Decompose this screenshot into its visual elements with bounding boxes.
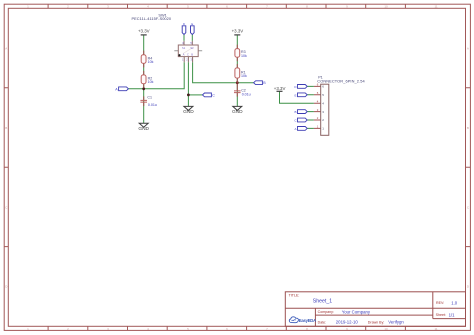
svg-text:GND: GND [232,109,243,115]
svg-text:10k: 10k [241,54,247,58]
svg-text:B: B [294,110,296,114]
svg-text:A: A [294,127,296,131]
svg-text:11: 11 [434,5,437,9]
bottom ticks [48,326,405,330]
wire: net B from encoder right pin [193,62,254,82]
svg-text:S1: S1 [182,46,186,50]
svg-text:D: D [183,22,185,26]
svg-text:1.0: 1.0 [451,300,458,305]
svg-text:TITLE:: TITLE: [289,294,300,298]
capacitor C1 [140,95,157,106]
svg-text:CONNECTOR_6PIN_2.54: CONNECTOR_6PIN_2.54 [317,79,365,84]
svg-text:C: C [212,93,215,97]
svg-text:+3.3V: +3.3V [138,28,150,33]
capacitor C2 [234,84,251,97]
svg-text:10k: 10k [148,80,154,84]
net flag C (middle) [203,93,216,97]
svg-text:B: B [191,53,193,57]
svg-text:E: E [294,93,296,97]
svg-text:B: B [5,126,7,130]
net flag B (connector pin 3) [294,110,307,114]
junction node A [142,87,145,90]
svg-text:0.01u: 0.01u [148,103,157,107]
pin 5 lead [191,41,193,45]
wire: +3.3V to connector pin 4 [280,92,314,104]
svg-text:2019-12-10: 2019-12-10 [336,320,359,325]
top ticks [48,4,405,8]
net flag A (connector pin 1) [294,127,307,131]
net flag E (above encoder pin 5, vertical) [191,22,195,41]
svg-text:A: A [467,47,469,51]
net flag C (connector pin 2) [294,118,307,122]
resistor R1 [235,64,247,83]
resistor R2 [141,71,153,88]
pin 4 lead [183,41,185,45]
net flag B (right) [254,81,267,85]
net flag A (left) [115,87,128,91]
svg-text:C: C [187,53,189,57]
svg-text:C1: C1 [147,95,152,99]
svg-text:11: 11 [434,327,437,331]
svg-text:Drawn By:: Drawn By: [368,321,385,325]
svg-text:Verifygn: Verifygn [388,320,404,325]
net flag D (above encoder pin 4, vertical) [182,22,186,41]
wire: connector flag stubs [307,86,314,128]
svg-text:B: B [467,126,469,130]
svg-text:10k: 10k [241,74,247,78]
svg-text:Your Company: Your Company [342,309,371,314]
wire: encoder middle pin down to gnd [187,62,189,106]
wire: left vertical column [143,35,145,123]
svg-text:10k: 10k [148,60,154,64]
bottom pin leads [184,57,192,63]
junction node C [187,94,190,97]
ground (right) [232,106,243,115]
svg-text:Sheet_1: Sheet_1 [313,299,332,305]
svg-text:+3.3V: +3.3V [232,28,244,33]
svg-text:Sheet:: Sheet: [436,313,446,317]
EasyEDA logo [289,317,316,323]
ground (middle) [183,106,194,115]
svg-text:GND: GND [138,126,149,132]
svg-text:10: 10 [384,5,388,9]
resistor R3 [235,45,247,62]
svg-text:EasyEDA: EasyEDA [299,318,316,323]
right ticks [466,88,471,247]
svg-text:GND: GND [183,109,194,115]
title block [285,292,465,327]
svg-text:REV:: REV: [436,301,444,305]
svg-text:E: E [191,22,193,26]
wire: right vertical column [236,35,238,106]
power flag +3.3V (left) [138,28,150,35]
wire: net A horizontal [128,62,184,89]
svg-text:S2: S2 [190,46,194,50]
power flag +3.3V (right column) [232,28,244,35]
left ticks [4,88,8,247]
svg-text:Date:: Date: [318,320,327,324]
wire: net C stub [188,94,202,96]
svg-text:0.01u: 0.01u [242,92,251,96]
svg-text:PEC11L-4115F-S0020: PEC11L-4115F-S0020 [132,16,172,21]
svg-text:10: 10 [384,327,388,331]
svg-text:A: A [5,47,7,51]
connector P1 [314,76,366,136]
svg-text:A: A [183,53,185,57]
ground (left) [138,123,149,132]
svg-text:1/1: 1/1 [449,312,456,317]
power flag +3.3V (connector) [274,86,286,91]
svg-text:Company:: Company: [318,310,334,314]
svg-text:+3.3V: +3.3V [274,86,286,91]
side pins [174,50,202,52]
resistor R4 [141,51,153,68]
junction node B [236,81,239,84]
rotary encoder SW1 [132,13,203,63]
net flag E (connector pin 5) [294,93,307,97]
net flag D (connector pin 6) [294,85,307,89]
